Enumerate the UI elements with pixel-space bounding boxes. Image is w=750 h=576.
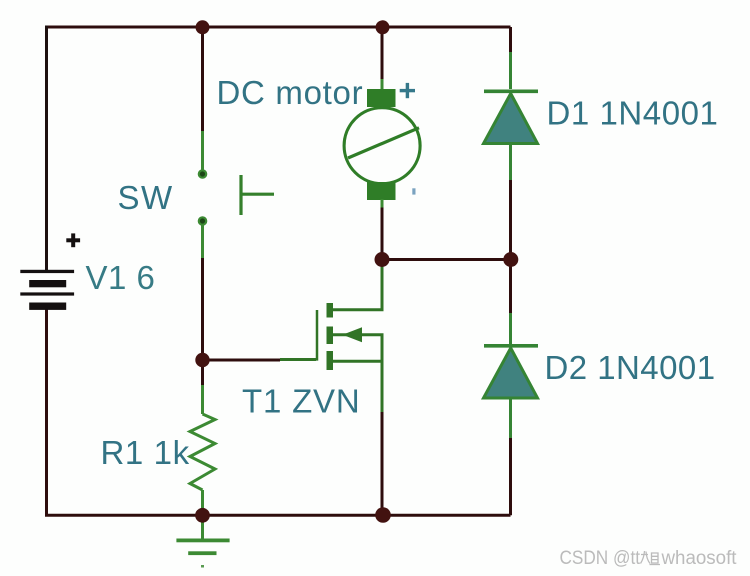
label DC motor [217, 74, 364, 111]
wire middle rail [382, 258, 511, 261]
svg-text:SW: SW [118, 179, 174, 216]
svg-text:V1 6: V1 6 [86, 259, 156, 296]
resistor R1 zigzag [190, 414, 215, 490]
transistor T1 channel bar top [327, 303, 334, 318]
label R1 1k [101, 434, 190, 471]
svg-text:whaosoft: whaosoft [661, 548, 738, 569]
battery V1 plate 2 (short thick, -) [29, 280, 66, 287]
ground bar 3 [201, 565, 204, 568]
svg-text:R1 1k: R1 1k [101, 434, 190, 471]
watermark CSDN right part [661, 548, 738, 569]
switch SW upper contact [199, 170, 206, 177]
label T1 ZVN [242, 383, 360, 420]
label SW [118, 179, 174, 216]
svg-text:D1 1N4001: D1 1N4001 [547, 95, 719, 132]
svg-text:D2 1N4001: D2 1N4001 [545, 349, 716, 386]
ground bar 2 [188, 551, 216, 555]
motor minus mark [412, 188, 415, 194]
DC motor commutator diagonal [348, 128, 419, 158]
battery V1 plate 4 (short thick, -) [29, 303, 66, 310]
battery V1 plate 1 (long thin, +) [20, 270, 74, 273]
battery V1 plate 3 (long thin, +) [20, 292, 74, 295]
junction node bottom ground [195, 508, 210, 523]
junction node top-left [196, 20, 210, 34]
wire D1 cathode lead [509, 27, 512, 89]
svg-text:T1 ZVN: T1 ZVN [242, 383, 360, 420]
wire resistor top lead [201, 360, 204, 414]
junction node middle-left (drain/motor) [375, 252, 390, 267]
wire motor top lead [381, 27, 384, 90]
DC motor body circle [344, 108, 420, 184]
wire switch branch lower (to gate node) [201, 226, 204, 361]
transistor T1 channel bar middle [327, 327, 334, 345]
wire left branch (battery bottom lead) [47, 309, 511, 515]
wire D2 cathode lead [509, 259, 512, 344]
junction node bottom source [375, 507, 391, 523]
ground bar 1 [176, 539, 229, 543]
junction node middle-right (diodes) [503, 252, 518, 267]
transistor T1 gate bar [314, 310, 317, 361]
svg-text:DC motor: DC motor [217, 74, 364, 111]
transistor T1 source lead [333, 361, 382, 515]
DC motor bottom terminal [367, 182, 396, 200]
label V1 6 [86, 259, 156, 296]
transistor T1 drain lead [333, 259, 382, 310]
watermark CSDN left part [560, 548, 641, 569]
wire D2 anode lead [509, 400, 512, 516]
wire motor bottom lead [381, 199, 384, 259]
diode D2 cathode bar [484, 344, 538, 348]
wire left branch (battery top lead) [45, 26, 48, 271]
switch SW lower contact [199, 217, 206, 224]
junction node top-middle [376, 20, 390, 34]
diode D2 triangle [484, 348, 538, 398]
label D1 1N4001 [547, 95, 719, 132]
junction node gate [195, 353, 209, 367]
watermark jie glyph [641, 551, 661, 565]
motor plus mark [400, 83, 415, 98]
DC motor top terminal [367, 89, 396, 107]
svg-text:CSDN @tt: CSDN @tt [560, 548, 641, 569]
switch SW actuator [241, 175, 274, 215]
transistor T1 channel bar bottom [327, 351, 334, 370]
wire D1 anode lead [509, 145, 512, 259]
wire gate lead (node to mosfet) [203, 358, 317, 362]
wire switch branch upper (from top rail) [201, 27, 204, 170]
wire top rail [45, 26, 511, 29]
transistor T1 body lead with arrow [333, 327, 382, 361]
battery plus sign [66, 233, 80, 247]
wire resistor bottom lead [201, 490, 204, 540]
diode D1 cathode bar [484, 90, 538, 94]
diode D1 triangle [484, 94, 538, 144]
label D2 1N4001 [545, 349, 716, 386]
